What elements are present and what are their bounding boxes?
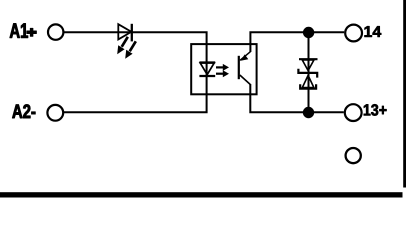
coupling arrow 1 xyxy=(216,64,229,71)
opto LED triangle xyxy=(200,63,214,75)
junction dot bottom xyxy=(303,107,314,118)
opto LED cathode bar xyxy=(199,75,215,77)
optocoupler box U1 xyxy=(191,44,256,94)
suppressor diode top triangle xyxy=(302,60,314,71)
LED D1 emission arrow 2 xyxy=(125,41,136,58)
terminal A2- circle xyxy=(47,105,63,121)
LED D1 cathode bar xyxy=(131,24,133,42)
wire suppressor branch xyxy=(308,32,310,112)
coupling arrow 2 xyxy=(216,70,229,77)
junction dot top xyxy=(303,27,314,38)
suppressor diode bottom bar xyxy=(300,84,316,88)
suppressor diode bottom triangle xyxy=(302,75,314,87)
opto LED anode bar xyxy=(199,61,215,63)
wire output bottom to 13+ xyxy=(250,84,343,112)
phototransistor Q1 base xyxy=(238,56,240,79)
wire input loop A1-A2 xyxy=(64,32,207,112)
terminal A1+ circle xyxy=(48,24,63,39)
terminal 14 circle xyxy=(345,25,362,42)
phototransistor Q1 emitter lead xyxy=(240,75,251,85)
wire output top to 14 xyxy=(250,32,344,52)
label 13+ xyxy=(364,104,387,115)
label A2- xyxy=(12,104,35,118)
frame right border xyxy=(403,0,406,188)
phototransistor Q1 arrow xyxy=(241,54,249,60)
frame bottom border xyxy=(0,192,403,197)
unused terminal circle xyxy=(346,148,361,163)
LED D1 emission arrow 1 xyxy=(117,37,128,54)
LED D1 indicator triangle xyxy=(118,24,131,39)
suppressor diode middle Z-bar xyxy=(298,69,317,78)
label A1+ xyxy=(10,24,37,38)
phototransistor Q1 collector lead xyxy=(240,52,250,61)
label 14 xyxy=(365,26,382,37)
terminal 13+ circle xyxy=(345,104,362,121)
suppressor diode top bar xyxy=(299,58,318,60)
